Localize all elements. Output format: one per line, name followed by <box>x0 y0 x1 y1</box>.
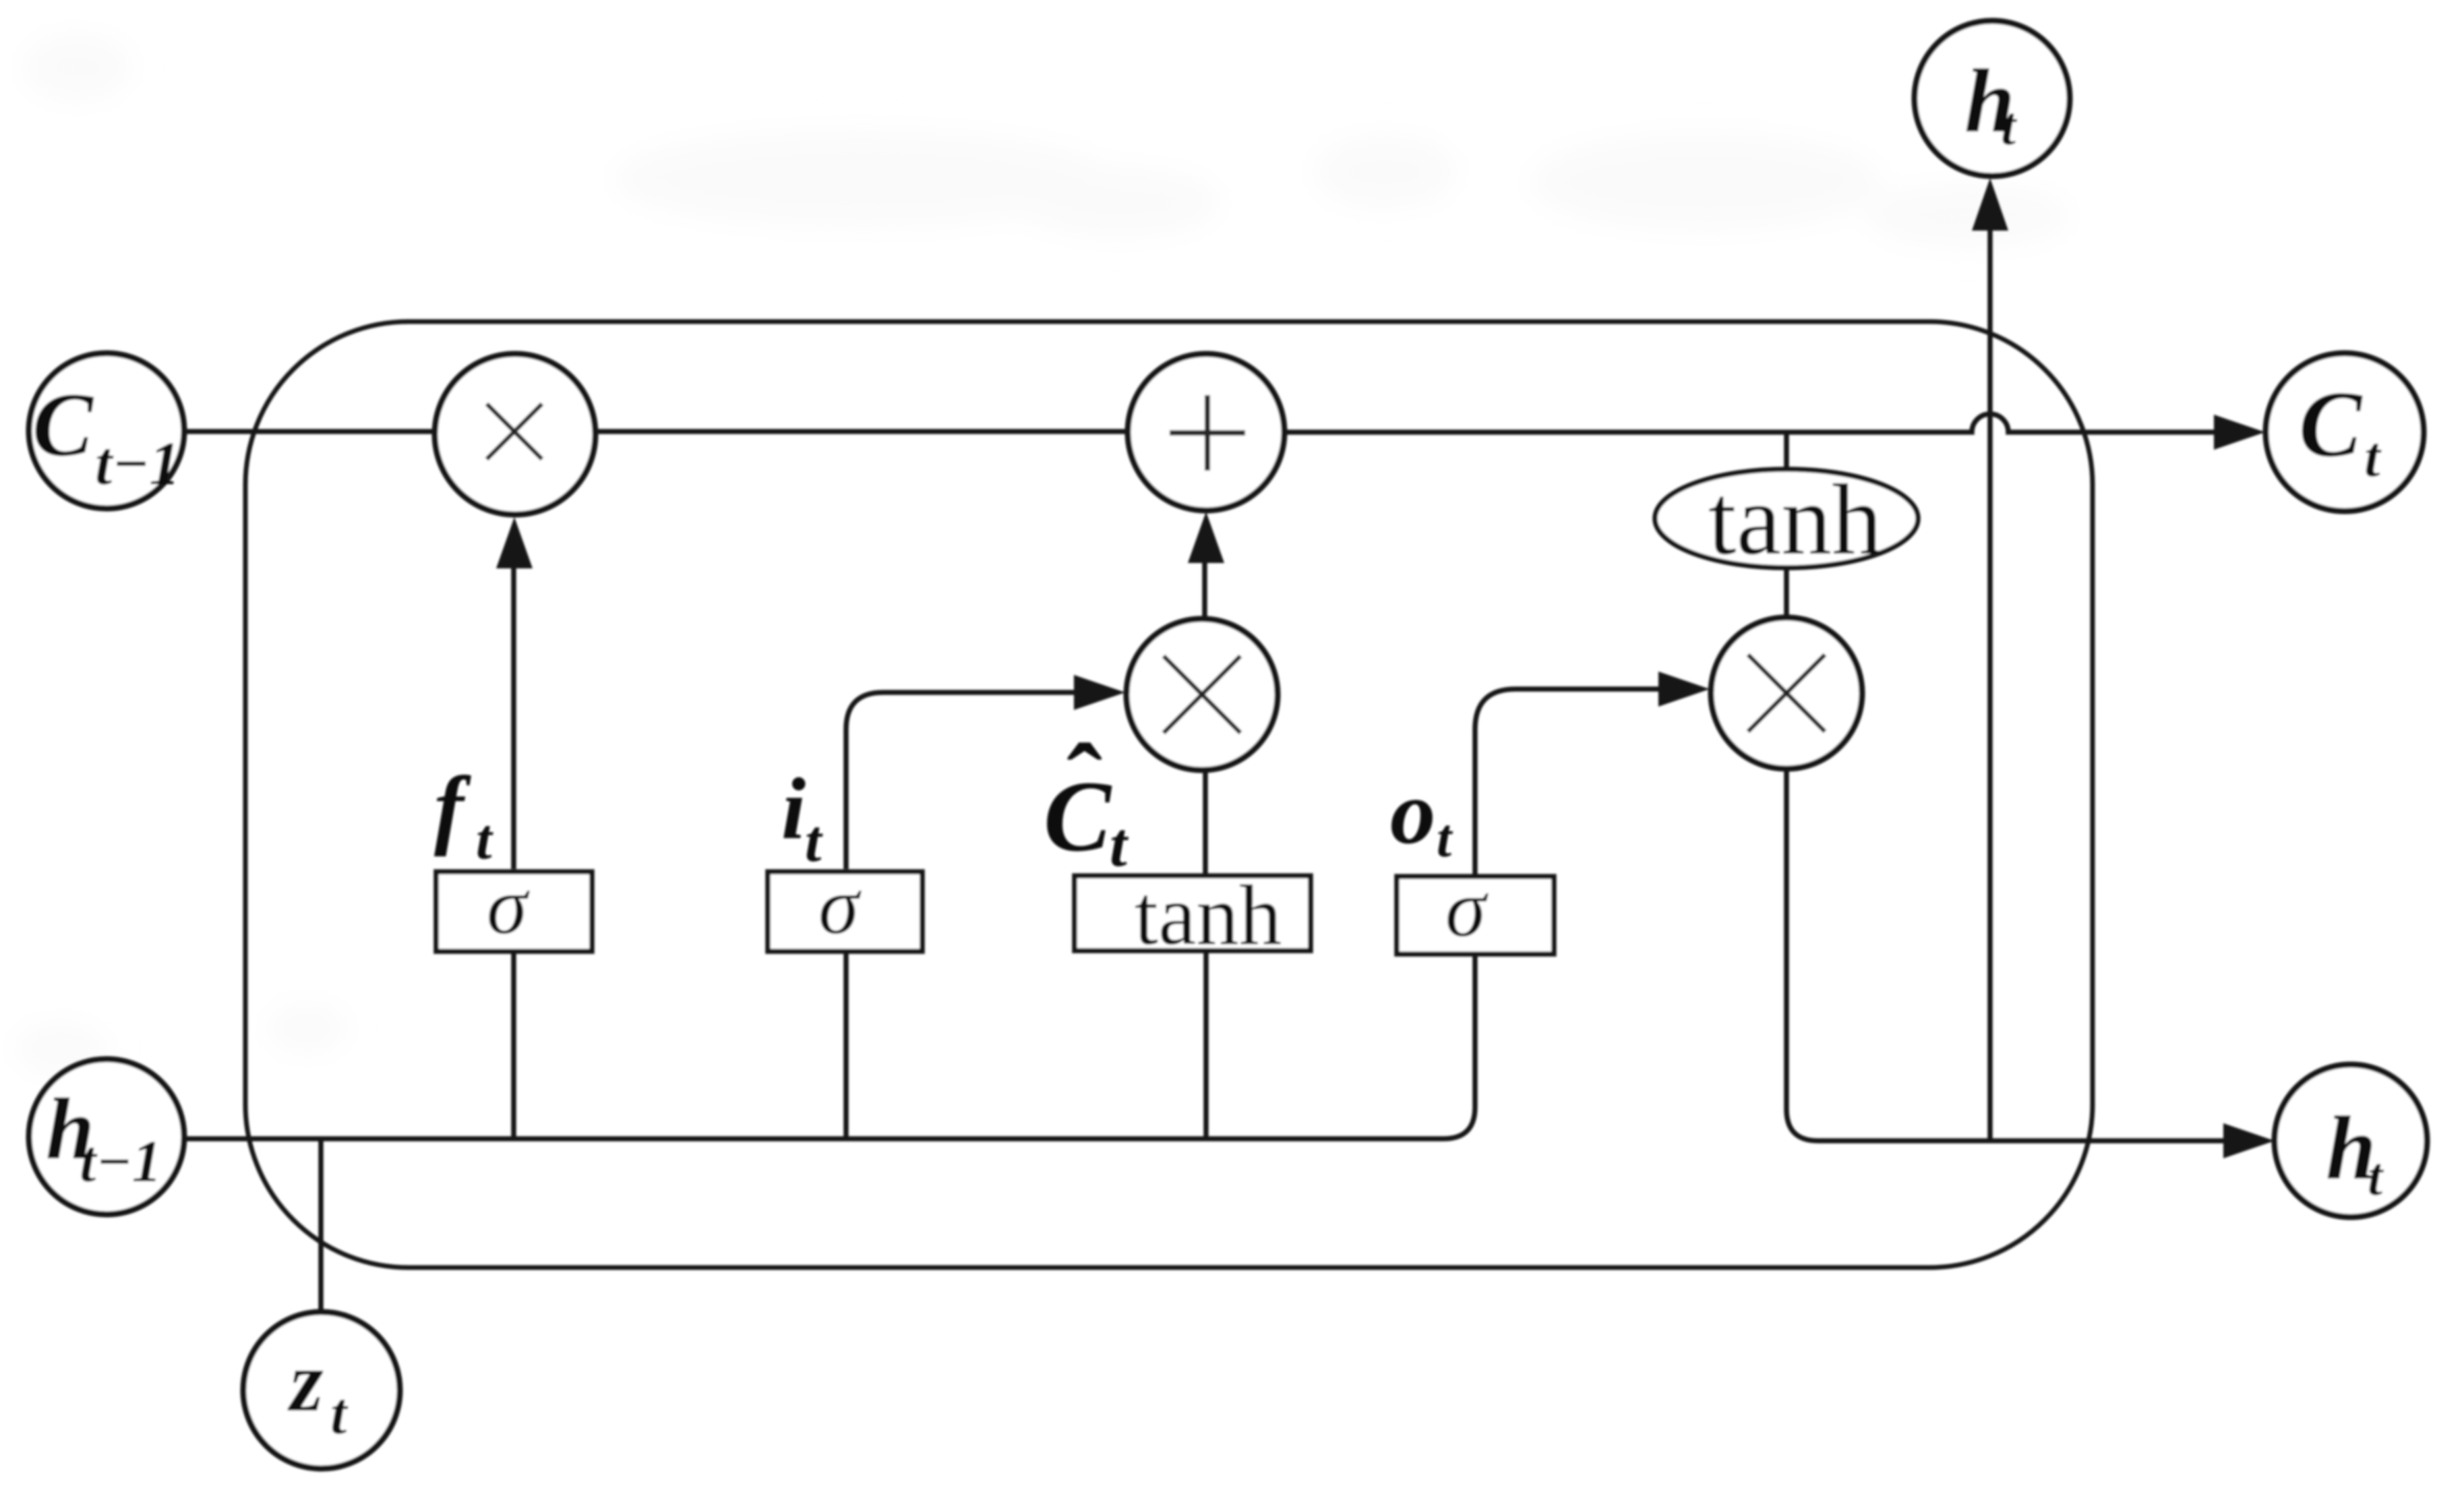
arrow from forget gate into multiply left <box>496 517 533 869</box>
LSTM cell rounded rectangle <box>245 322 2093 1268</box>
wire f-line h-line up to sigma1 <box>511 952 516 1139</box>
wire output gate path into multiply right <box>1475 689 1660 874</box>
wire C-line branch down to tanh ellipse <box>1784 432 1789 471</box>
wire multiply right down then right to h_t with arrow <box>1786 769 2223 1141</box>
svg-text:t: t <box>330 1381 349 1447</box>
svg-text:i: i <box>781 761 806 858</box>
label C-hat_t <box>1044 722 1129 880</box>
multiply circle right <box>1711 618 1862 769</box>
node h_t top <box>1915 21 2070 176</box>
wire h_t top branch with arrow <box>1987 231 1993 1141</box>
node z_t <box>243 1312 400 1468</box>
wire tanh ellipse to multiply right <box>1784 568 1789 619</box>
node C_{t-1} <box>29 353 184 508</box>
wire z_t up to h-line <box>318 1139 324 1313</box>
wire i-line h-line up to sigma2 <box>843 952 849 1139</box>
node C_t <box>2266 353 2424 511</box>
label o_t <box>1390 763 1453 868</box>
svg-text:t: t <box>2368 1148 2384 1207</box>
svg-text:tanh: tanh <box>1135 868 1282 963</box>
multiply circle mid <box>1126 619 1278 770</box>
arrowhead into multiply mid <box>1074 675 1125 710</box>
svg-text:o: o <box>1390 763 1436 863</box>
sigma box f <box>436 860 592 951</box>
plus circle <box>1128 354 1284 510</box>
multiply circle left <box>435 354 595 514</box>
svg-text:ˆ: ˆ <box>1066 722 1102 842</box>
wire plus to C_t with hop over h-branch <box>1282 414 2215 432</box>
svg-text:t: t <box>805 809 823 874</box>
wire input gate path into multiply mid <box>846 692 1077 869</box>
tanh ellipse <box>1655 464 1918 576</box>
svg-text:t−1: t−1 <box>80 1129 162 1195</box>
svg-text:t−1: t−1 <box>95 429 180 498</box>
svg-text:t: t <box>1110 810 1129 880</box>
sigma box i <box>768 860 922 951</box>
wire candidate line multiply mid down to tanh box <box>1203 770 1208 876</box>
svg-text:σ: σ <box>1445 863 1489 954</box>
label i_t <box>781 761 823 874</box>
svg-text:tanh: tanh <box>1708 464 1882 576</box>
tanh box <box>1075 868 1311 963</box>
svg-text:C: C <box>32 375 94 475</box>
sigma box o <box>1397 863 1554 954</box>
arrow from multiply mid into plus <box>1188 512 1224 618</box>
svg-text:t: t <box>1437 809 1453 868</box>
svg-text:z: z <box>287 1334 324 1429</box>
svg-text:σ: σ <box>818 860 862 951</box>
svg-text:t: t <box>476 808 493 871</box>
arrowhead into multiply right <box>1658 672 1710 707</box>
wire multiply left to plus <box>593 429 1130 434</box>
label f_t <box>434 758 493 871</box>
svg-text:t: t <box>2001 97 2018 156</box>
svg-text:C: C <box>2299 372 2363 477</box>
wire C-line from C_{t-1} to multiply left <box>183 429 437 434</box>
svg-text:σ: σ <box>487 860 531 951</box>
node h_t bottom <box>2275 1065 2427 1217</box>
ghost blobs (faded artifacts) <box>13 35 2070 1072</box>
arrowhead into C_t <box>2214 415 2265 450</box>
svg-text:t: t <box>2364 425 2382 489</box>
wire tanh-box down to h-line <box>1203 949 1209 1139</box>
wire h-line from h_{t-1} across to output gate <box>184 952 1475 1139</box>
node h_{t-1} <box>29 1059 184 1214</box>
